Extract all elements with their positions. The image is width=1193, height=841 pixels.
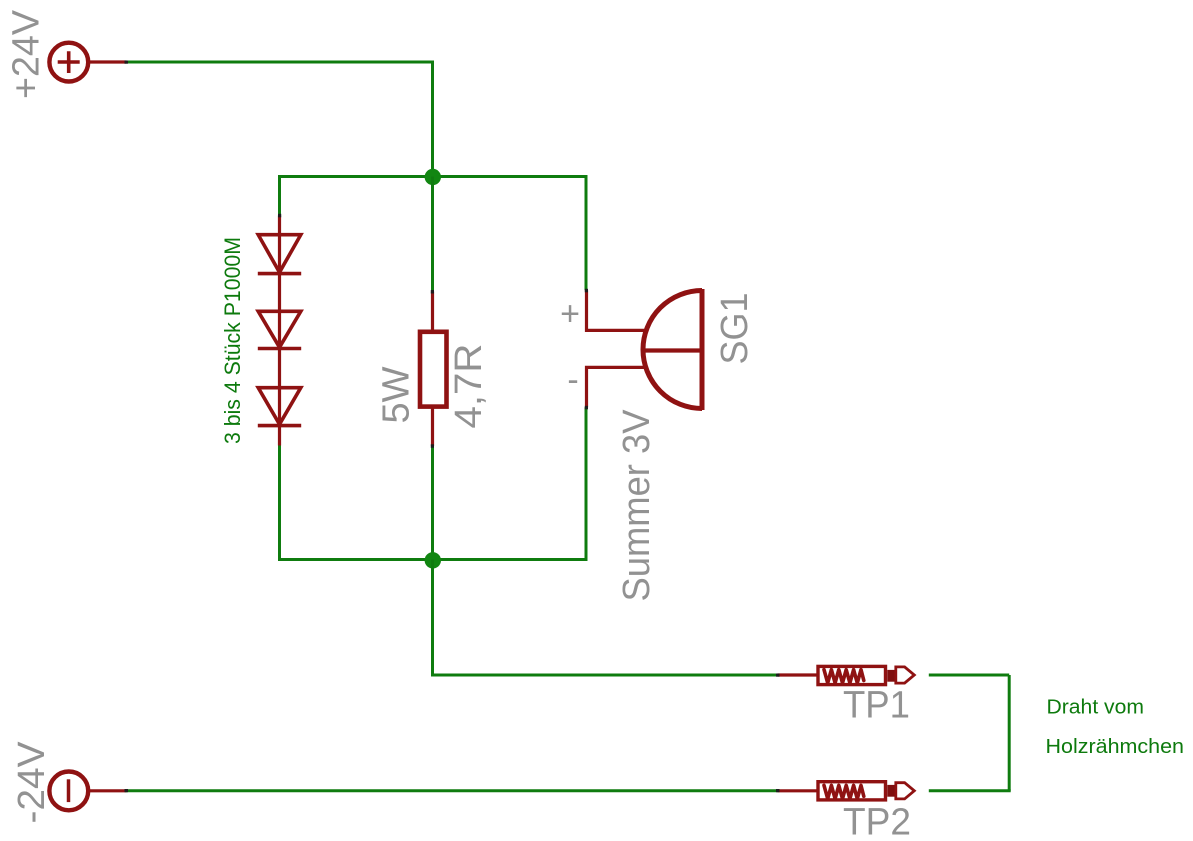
svg-text:Holzrähmchen: Holzrähmchen	[1046, 735, 1185, 758]
junction bottom node	[425, 552, 441, 568]
svg-text:SG1: SG1	[714, 293, 756, 365]
wire right branch lower	[585, 407, 588, 561]
wire right of TP2	[929, 789, 1011, 792]
testpoint TP2 body	[818, 782, 914, 800]
supply -24V symbol	[49, 772, 88, 811]
pin connection dots	[125, 61, 780, 793]
wire top vertical down to junction	[431, 61, 434, 177]
wire middle branch upper	[431, 177, 434, 292]
pin of +24V supply	[90, 60, 127, 63]
resistor R1 body	[420, 332, 447, 407]
svg-text:TP2: TP2	[843, 802, 911, 841]
wire right branch upper	[585, 175, 588, 290]
svg-text:4,7R: 4,7R	[448, 344, 490, 429]
svg-text:5W: 5W	[376, 366, 418, 423]
speaker SG1 minus pin	[587, 367, 647, 407]
diode D1	[258, 235, 301, 274]
testpoint TP1 pin	[778, 673, 817, 676]
diode chain pin line	[278, 216, 281, 446]
supply +24V symbol	[49, 43, 88, 82]
testpoint TP2 pin	[778, 789, 817, 792]
wire top bus horizontal	[280, 175, 587, 178]
wire bottom bus horizontal	[280, 558, 587, 561]
junction top node	[425, 169, 441, 185]
diode D2	[258, 311, 301, 348]
wire top horizontal from +24V	[126, 61, 433, 64]
wire middle branch lower	[431, 446, 434, 560]
svg-text:+24V: +24V	[6, 9, 48, 99]
speaker SG1 plus pin	[587, 290, 647, 330]
testpoint TP1 body	[818, 666, 914, 684]
wire right of TP1	[929, 674, 1009, 677]
pin of -24V supply	[90, 789, 127, 792]
speaker SG1 body	[643, 289, 702, 410]
wire vertical right	[1008, 675, 1011, 791]
svg-text:Draht vom: Draht vom	[1047, 696, 1145, 719]
diode D3	[258, 388, 301, 426]
wire to TP1	[431, 674, 778, 677]
svg-text:+: +	[560, 295, 580, 333]
resistor R1 top pin	[431, 292, 434, 331]
wire -24V to TP2	[126, 789, 778, 792]
svg-text:-24V: -24V	[11, 741, 53, 824]
svg-text:-: -	[567, 361, 578, 399]
resistor R1 bottom pin	[431, 409, 434, 447]
svg-text:TP1: TP1	[843, 685, 910, 727]
wire from bottom junction down	[431, 560, 434, 676]
wire left branch lower	[278, 446, 281, 562]
svg-text:Summer 3V: Summer 3V	[616, 409, 658, 602]
wire left branch upper	[278, 175, 281, 216]
svg-text:3 bis 4 Stück P1000M: 3 bis 4 Stück P1000M	[220, 237, 245, 444]
